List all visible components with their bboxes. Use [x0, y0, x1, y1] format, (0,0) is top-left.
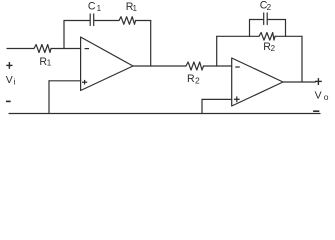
wire feedback2 right vertical — [301, 36, 303, 82]
capacitor C1 — [90, 14, 94, 26]
wire feedback2 left vertical — [216, 36, 218, 66]
svg-text:2: 2 — [267, 3, 272, 12]
wire feedback2 top left — [217, 35, 259, 37]
wire U2 output — [283, 81, 316, 83]
label minus input terminal — [6, 100, 11, 102]
svg-text:1: 1 — [133, 4, 138, 13]
label minus output terminal — [313, 110, 319, 112]
svg-text:V: V — [315, 90, 322, 102]
label plus input terminal — [6, 62, 12, 69]
op-amp U1 — [81, 37, 133, 91]
resistor R2 (feedback) — [259, 33, 275, 41]
wire U1 output — [133, 65, 186, 67]
wire U1 non-inverting input — [49, 80, 81, 82]
op-amp U2 plus sign — [234, 96, 240, 102]
wire input terminal to R1 — [7, 48, 34, 50]
wire C2 branch right — [268, 19, 286, 21]
wire U1 plus input down to ground rail — [48, 81, 50, 114]
wire feedback1 top left — [64, 20, 90, 22]
svg-text:o: o — [324, 92, 329, 102]
wire C2 branch left — [250, 19, 264, 21]
wire feedback2 top right — [275, 35, 302, 37]
capacitor C2 — [264, 13, 268, 25]
wire R1 to op-amp U1 inverting input — [51, 48, 81, 50]
label plus output terminal — [315, 78, 322, 85]
svg-text:2: 2 — [195, 75, 200, 85]
svg-text:V: V — [6, 74, 13, 86]
resistor R1 (series input) — [34, 45, 51, 53]
svg-text:1: 1 — [47, 59, 52, 68]
wire U2 non-inverting input — [202, 98, 232, 100]
wire R2 to op-amp U2 inverting input — [204, 65, 232, 67]
op-amp U1 minus sign — [85, 48, 89, 50]
resistor R1 (feedback) — [119, 17, 136, 25]
op-amp U2 minus sign — [235, 66, 239, 68]
wire C1 to feedback R1 — [94, 20, 119, 22]
wire feedback1 right vertical — [150, 21, 152, 67]
svg-text:R: R — [187, 73, 195, 85]
svg-text:1: 1 — [97, 4, 102, 13]
wire U2 plus input down to ground rail — [201, 99, 203, 113]
svg-text:i: i — [14, 77, 16, 87]
wire C2 branch right stub — [285, 20, 287, 37]
wire C2 branch left stub — [249, 20, 251, 37]
op-amp U1 plus sign — [82, 80, 87, 85]
wire feedback1 top right — [136, 20, 151, 22]
svg-text:2: 2 — [271, 44, 276, 53]
op-amp U2 — [232, 58, 283, 106]
resistor R2 (series) — [186, 62, 204, 70]
wire ground rail — [9, 113, 320, 115]
svg-text:C: C — [88, 1, 96, 13]
wire feedback1 left vertical — [63, 21, 65, 49]
